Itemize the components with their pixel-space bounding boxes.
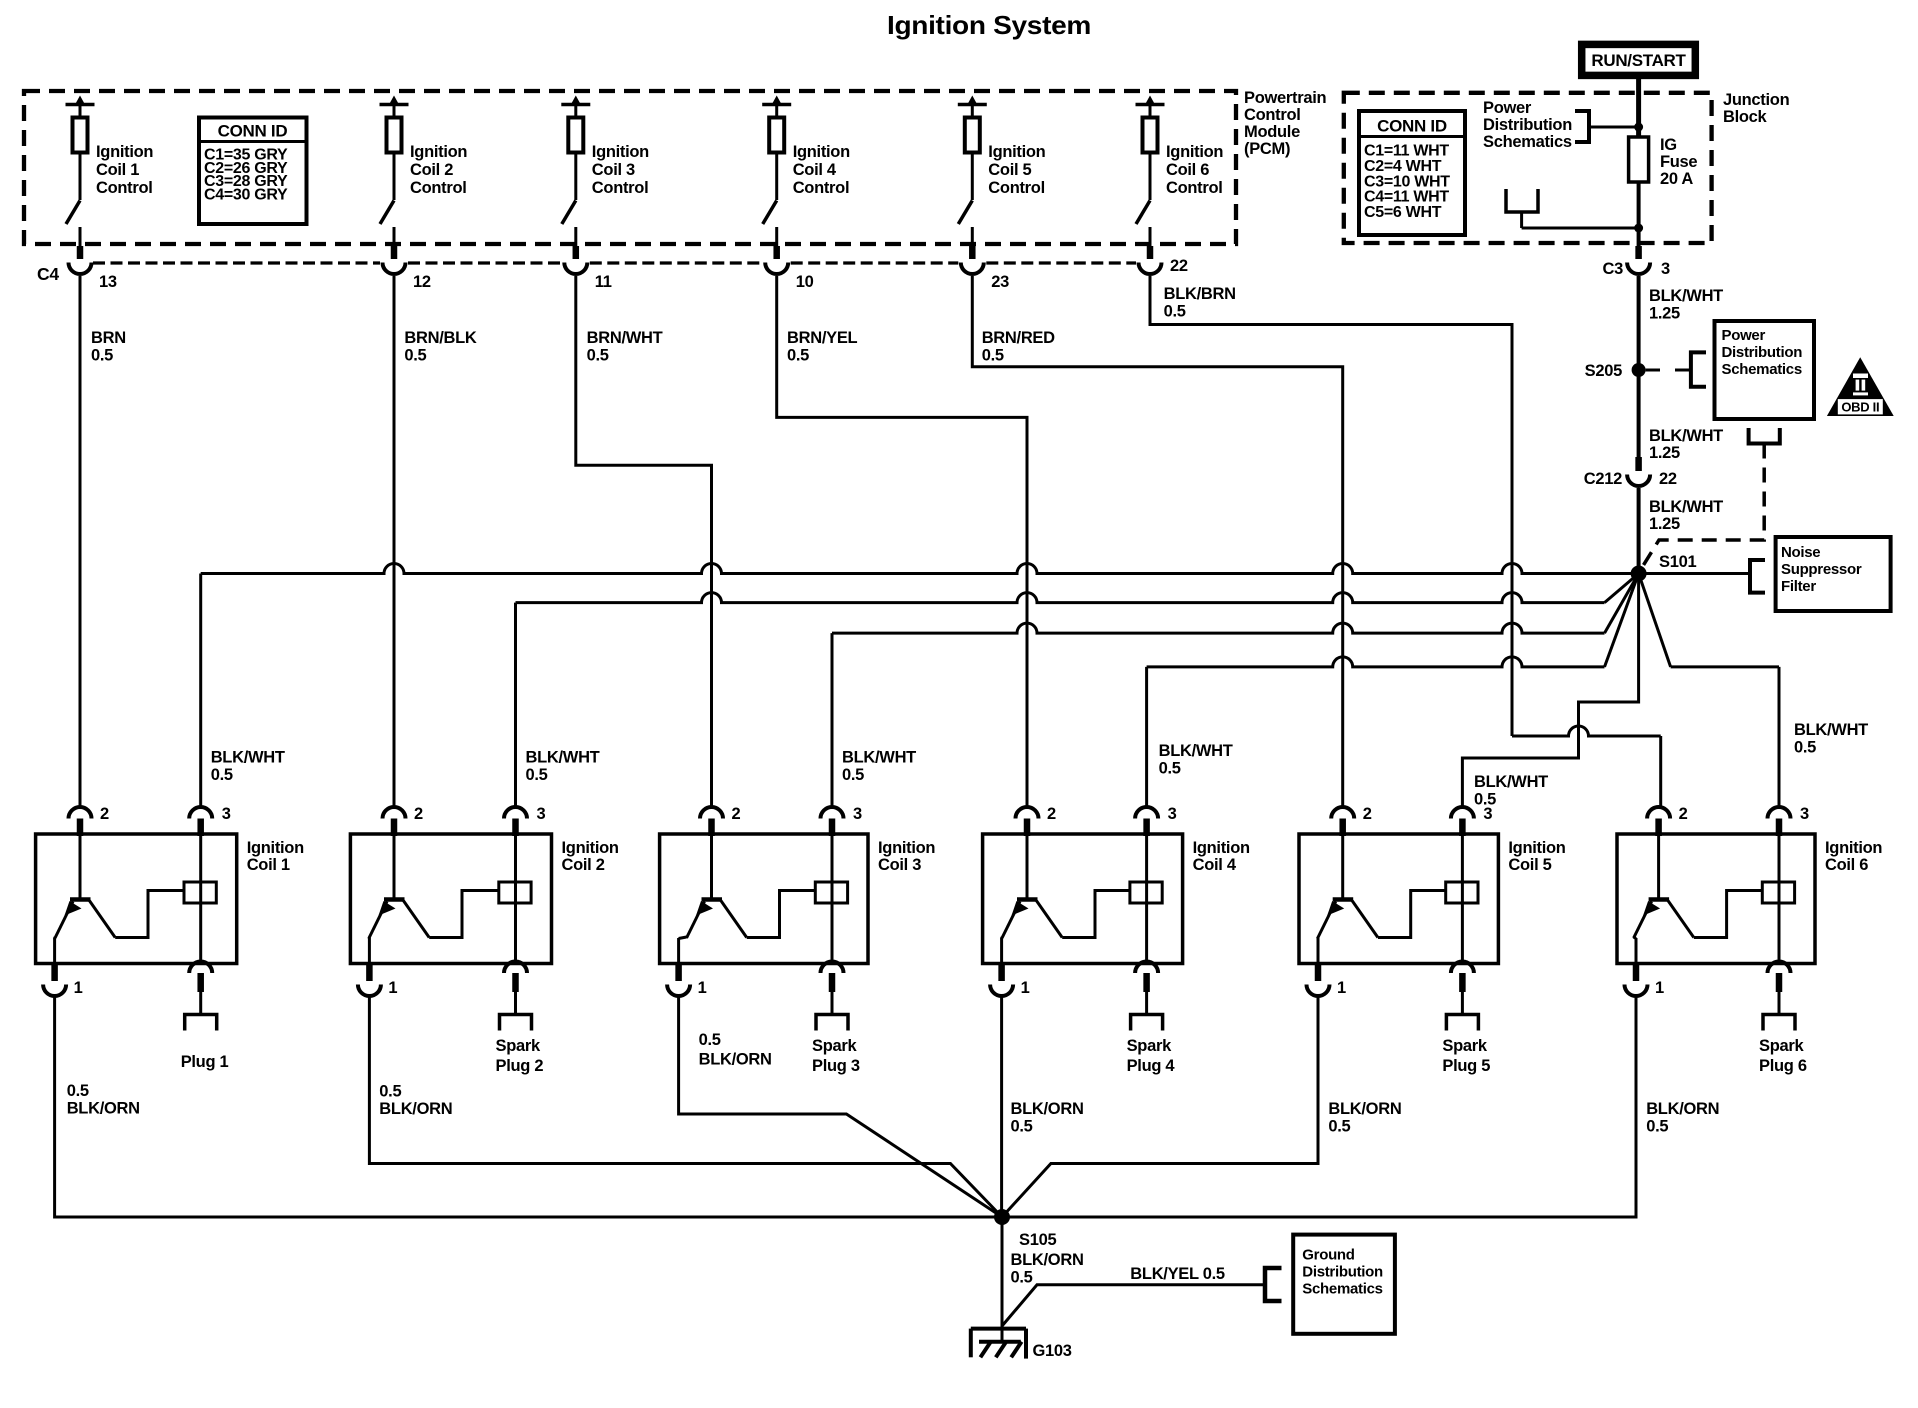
svg-text:0.5: 0.5 bbox=[1011, 1118, 1033, 1136]
svg-text:11: 11 bbox=[595, 273, 612, 291]
svg-text:22: 22 bbox=[1170, 257, 1188, 275]
svg-text:BLK/BRN: BLK/BRN bbox=[1164, 285, 1236, 303]
svg-text:BLK/ORN: BLK/ORN bbox=[379, 1100, 452, 1118]
svg-text:BRN: BRN bbox=[91, 329, 126, 347]
svg-text:0.5: 0.5 bbox=[1794, 739, 1816, 757]
svg-text:0.5: 0.5 bbox=[699, 1031, 721, 1049]
svg-text:BLK/ORN: BLK/ORN bbox=[1011, 1100, 1084, 1118]
svg-text:1: 1 bbox=[1337, 979, 1346, 997]
svg-text:1: 1 bbox=[74, 979, 83, 997]
svg-text:BLK/WHT: BLK/WHT bbox=[1649, 427, 1723, 445]
svg-text:C5=6 WHT: C5=6 WHT bbox=[1364, 204, 1442, 221]
svg-text:BLK/ORN: BLK/ORN bbox=[1011, 1251, 1084, 1269]
svg-text:Control: Control bbox=[410, 179, 467, 197]
svg-text:Coil 3: Coil 3 bbox=[878, 856, 921, 874]
svg-text:RUN/START: RUN/START bbox=[1591, 51, 1686, 70]
svg-text:22: 22 bbox=[1659, 470, 1677, 488]
svg-text:Power: Power bbox=[1722, 327, 1766, 344]
svg-text:Fuse: Fuse bbox=[1660, 153, 1697, 171]
svg-text:0.5: 0.5 bbox=[1164, 303, 1186, 321]
svg-text:Ignition: Ignition bbox=[878, 839, 935, 857]
svg-text:Coil 2: Coil 2 bbox=[410, 161, 453, 179]
svg-text:Ignition: Ignition bbox=[1193, 839, 1250, 857]
svg-text:0.5: 0.5 bbox=[982, 347, 1004, 365]
svg-text:Coil 6: Coil 6 bbox=[1825, 856, 1868, 874]
svg-text:3: 3 bbox=[222, 805, 231, 823]
svg-text:20 A: 20 A bbox=[1660, 170, 1693, 188]
svg-text:Coil 1: Coil 1 bbox=[96, 161, 139, 179]
svg-text:Spark: Spark bbox=[496, 1037, 541, 1055]
svg-text:CONN ID: CONN ID bbox=[218, 122, 288, 141]
svg-text:Plug 6: Plug 6 bbox=[1759, 1057, 1807, 1075]
svg-text:BLK/YEL 0.5: BLK/YEL 0.5 bbox=[1130, 1265, 1225, 1283]
svg-text:Control: Control bbox=[988, 179, 1045, 197]
svg-text:Powertrain: Powertrain bbox=[1244, 89, 1326, 107]
svg-text:3: 3 bbox=[1800, 805, 1809, 823]
svg-text:2: 2 bbox=[732, 805, 741, 823]
svg-text:Plug 4: Plug 4 bbox=[1127, 1057, 1176, 1075]
svg-text:Ground: Ground bbox=[1302, 1247, 1354, 1264]
svg-text:0.5: 0.5 bbox=[404, 347, 426, 365]
svg-text:Ignition: Ignition bbox=[96, 143, 153, 161]
svg-text:Spark: Spark bbox=[812, 1037, 857, 1055]
svg-text:Control: Control bbox=[1244, 106, 1301, 124]
svg-text:Spark: Spark bbox=[1127, 1037, 1172, 1055]
svg-text:S105: S105 bbox=[1019, 1231, 1056, 1249]
svg-text:BLK/WHT: BLK/WHT bbox=[842, 749, 916, 767]
svg-text:Ignition: Ignition bbox=[988, 143, 1045, 161]
svg-text:Schematics: Schematics bbox=[1722, 361, 1802, 378]
svg-text:0.5: 0.5 bbox=[1646, 1118, 1668, 1136]
svg-text:G103: G103 bbox=[1033, 1342, 1072, 1360]
svg-text:Distribution: Distribution bbox=[1483, 116, 1572, 134]
svg-text:Spark: Spark bbox=[1759, 1037, 1804, 1055]
svg-text:Plug 2: Plug 2 bbox=[496, 1057, 544, 1075]
svg-text:Junction: Junction bbox=[1723, 91, 1790, 109]
svg-text:BLK/WHT: BLK/WHT bbox=[526, 749, 600, 767]
svg-text:12: 12 bbox=[413, 273, 431, 291]
svg-text:3: 3 bbox=[537, 805, 546, 823]
svg-text:13: 13 bbox=[99, 273, 117, 291]
svg-text:2: 2 bbox=[100, 805, 109, 823]
svg-text:BLK/WHT: BLK/WHT bbox=[1159, 742, 1233, 760]
svg-text:0.5: 0.5 bbox=[787, 347, 809, 365]
svg-text:0.5: 0.5 bbox=[91, 347, 113, 365]
svg-text:0.5: 0.5 bbox=[1159, 760, 1181, 778]
svg-text:Schematics: Schematics bbox=[1302, 1281, 1382, 1298]
svg-text:1.25: 1.25 bbox=[1649, 515, 1680, 533]
svg-text:BRN/YEL: BRN/YEL bbox=[787, 329, 858, 347]
svg-text:3: 3 bbox=[1168, 805, 1177, 823]
svg-text:Coil 4: Coil 4 bbox=[1193, 856, 1237, 874]
svg-text:1: 1 bbox=[698, 979, 707, 997]
svg-text:0.5: 0.5 bbox=[67, 1082, 89, 1100]
svg-text:1: 1 bbox=[1021, 979, 1030, 997]
svg-text:Spark: Spark bbox=[1442, 1037, 1487, 1055]
svg-text:0.5: 0.5 bbox=[1328, 1118, 1350, 1136]
svg-text:Coil 3: Coil 3 bbox=[592, 161, 635, 179]
svg-text:BLK/WHT: BLK/WHT bbox=[1649, 498, 1723, 516]
svg-text:CONN ID: CONN ID bbox=[1377, 117, 1447, 136]
svg-text:Plug 1: Plug 1 bbox=[181, 1053, 229, 1071]
svg-text:Coil 5: Coil 5 bbox=[1508, 856, 1551, 874]
svg-text:2: 2 bbox=[414, 805, 423, 823]
svg-text:0.5: 0.5 bbox=[1011, 1269, 1033, 1287]
svg-text:(PCM): (PCM) bbox=[1244, 140, 1290, 158]
svg-text:Ignition: Ignition bbox=[592, 143, 649, 161]
svg-text:IG: IG bbox=[1660, 136, 1677, 154]
svg-text:Ignition: Ignition bbox=[793, 143, 850, 161]
svg-text:Coil 5: Coil 5 bbox=[988, 161, 1031, 179]
svg-text:Ignition System: Ignition System bbox=[887, 10, 1091, 40]
svg-text:1.25: 1.25 bbox=[1649, 444, 1680, 462]
svg-text:C4: C4 bbox=[37, 264, 59, 284]
svg-text:Ignition: Ignition bbox=[1166, 143, 1223, 161]
svg-text:Coil 6: Coil 6 bbox=[1166, 161, 1209, 179]
svg-text:1: 1 bbox=[388, 979, 397, 997]
svg-text:BLK/ORN: BLK/ORN bbox=[1646, 1100, 1719, 1118]
svg-text:3: 3 bbox=[853, 805, 862, 823]
svg-text:BLK/WHT: BLK/WHT bbox=[1794, 721, 1868, 739]
svg-text:BLK/ORN: BLK/ORN bbox=[699, 1051, 772, 1069]
svg-text:1.25: 1.25 bbox=[1649, 305, 1680, 323]
svg-text:Ignition: Ignition bbox=[247, 839, 304, 857]
svg-text:Noise: Noise bbox=[1781, 544, 1820, 561]
svg-text:10: 10 bbox=[796, 273, 814, 291]
svg-text:Module: Module bbox=[1244, 123, 1300, 141]
svg-text:Block: Block bbox=[1723, 108, 1768, 126]
svg-text:S101: S101 bbox=[1659, 553, 1696, 571]
svg-text:Coil 1: Coil 1 bbox=[247, 856, 290, 874]
svg-text:0.5: 0.5 bbox=[379, 1083, 401, 1101]
svg-text:Ignition: Ignition bbox=[1508, 839, 1565, 857]
svg-text:Control: Control bbox=[592, 179, 649, 197]
svg-text:Ignition: Ignition bbox=[562, 839, 619, 857]
svg-text:Filter: Filter bbox=[1781, 578, 1816, 595]
svg-text:2: 2 bbox=[1363, 805, 1372, 823]
svg-text:Plug 5: Plug 5 bbox=[1442, 1057, 1490, 1075]
svg-text:0.5: 0.5 bbox=[211, 766, 233, 784]
svg-text:Distribution: Distribution bbox=[1302, 1264, 1383, 1281]
svg-text:23: 23 bbox=[991, 273, 1009, 291]
svg-text:BLK/WHT: BLK/WHT bbox=[1474, 773, 1548, 791]
svg-text:Power: Power bbox=[1483, 99, 1532, 117]
svg-text:C212: C212 bbox=[1584, 470, 1622, 488]
svg-text:BLK/ORN: BLK/ORN bbox=[1328, 1100, 1401, 1118]
svg-text:0.5: 0.5 bbox=[587, 347, 609, 365]
svg-text:C4=30 GRY: C4=30 GRY bbox=[204, 186, 288, 203]
svg-text:Plug 3: Plug 3 bbox=[812, 1057, 860, 1075]
svg-text:Control: Control bbox=[96, 179, 153, 197]
svg-text:Ignition: Ignition bbox=[410, 143, 467, 161]
svg-text:2: 2 bbox=[1047, 805, 1056, 823]
svg-text:Suppressor: Suppressor bbox=[1781, 561, 1862, 578]
svg-text:Ignition: Ignition bbox=[1825, 839, 1882, 857]
svg-text:BLK/ORN: BLK/ORN bbox=[67, 1100, 140, 1118]
svg-text:Distribution: Distribution bbox=[1722, 344, 1803, 361]
svg-text:1: 1 bbox=[1655, 979, 1664, 997]
svg-text:0.5: 0.5 bbox=[842, 766, 864, 784]
svg-text:S205: S205 bbox=[1585, 362, 1622, 380]
svg-text:2: 2 bbox=[1679, 805, 1688, 823]
svg-text:3: 3 bbox=[1661, 260, 1670, 278]
svg-text:BRN/RED: BRN/RED bbox=[982, 329, 1055, 347]
svg-text:BLK/WHT: BLK/WHT bbox=[211, 749, 285, 767]
svg-text:Schematics: Schematics bbox=[1483, 133, 1572, 151]
svg-text:C3: C3 bbox=[1603, 260, 1624, 278]
svg-text:0.5: 0.5 bbox=[526, 766, 548, 784]
svg-text:Control: Control bbox=[1166, 179, 1223, 197]
svg-text:Coil 2: Coil 2 bbox=[562, 856, 605, 874]
svg-text:Control: Control bbox=[793, 179, 850, 197]
svg-text:3: 3 bbox=[1483, 805, 1492, 823]
svg-text:BRN/WHT: BRN/WHT bbox=[587, 329, 663, 347]
svg-text:BRN/BLK: BRN/BLK bbox=[404, 329, 477, 347]
svg-text:Coil 4: Coil 4 bbox=[793, 161, 837, 179]
svg-text:OBD II: OBD II bbox=[1841, 400, 1879, 415]
svg-text:BLK/WHT: BLK/WHT bbox=[1649, 287, 1723, 305]
